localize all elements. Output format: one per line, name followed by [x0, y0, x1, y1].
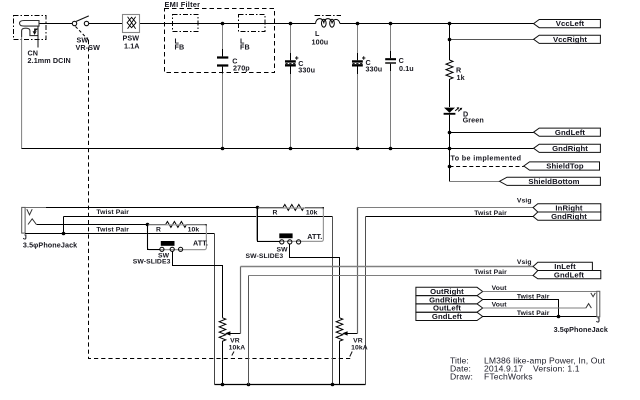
svg-text:Twist Pair: Twist Pair	[96, 209, 129, 216]
svg-text:Version: 1.1: Version: 1.1	[533, 364, 580, 374]
svg-text:GndRight: GndRight	[552, 144, 588, 153]
svg-text:GndRight: GndRight	[551, 212, 587, 221]
svg-text:330u: 330u	[298, 66, 315, 75]
svg-text:10k: 10k	[306, 210, 318, 217]
svg-text:0.1u: 0.1u	[399, 64, 414, 73]
svg-text:330u: 330u	[366, 65, 383, 74]
svg-text:GndLeft: GndLeft	[432, 312, 463, 321]
svg-text:Green: Green	[463, 115, 484, 124]
svg-text:3.5φPhoneJack: 3.5φPhoneJack	[23, 241, 77, 250]
svg-text:VR: VR	[353, 338, 363, 345]
svg-text:1k: 1k	[457, 73, 465, 82]
svg-text:Vout: Vout	[492, 302, 508, 309]
svg-text:J: J	[596, 316, 600, 325]
svg-text:ShieldTop: ShieldTop	[546, 162, 584, 171]
svg-text:SW-SLIDE3: SW-SLIDE3	[246, 253, 284, 260]
svg-text:1.1A: 1.1A	[124, 42, 140, 51]
svg-text:VR: VR	[230, 338, 240, 345]
svg-text:R: R	[273, 210, 278, 217]
svg-text:Twist Pair: Twist Pair	[474, 269, 507, 276]
svg-text:GndLeft: GndLeft	[555, 128, 586, 137]
svg-text:Twist Pair: Twist Pair	[474, 210, 507, 217]
svg-text:VccLeft: VccLeft	[556, 19, 585, 28]
svg-text:Twist Pair: Twist Pair	[517, 310, 550, 317]
svg-text:270p: 270p	[233, 63, 250, 72]
svg-text:ATT.: ATT.	[307, 232, 322, 241]
svg-text:FB: FB	[175, 43, 185, 52]
svg-text:EMI Filter: EMI Filter	[165, 0, 201, 9]
svg-text:10k: 10k	[188, 227, 200, 234]
svg-text:Vsig: Vsig	[517, 259, 532, 266]
svg-text:ATT.: ATT.	[193, 239, 208, 248]
svg-text:SW-SLIDE3: SW-SLIDE3	[133, 259, 171, 266]
svg-text:VccRight: VccRight	[553, 35, 587, 44]
svg-text:FB: FB	[240, 43, 250, 52]
svg-text:ShieldBottom: ShieldBottom	[528, 177, 579, 186]
svg-text:FTechWorks: FTechWorks	[484, 372, 533, 382]
svg-text:2.1mm DCIN: 2.1mm DCIN	[28, 56, 71, 65]
svg-text:3.5φPhoneJack: 3.5φPhoneJack	[554, 325, 608, 334]
svg-text:10kA: 10kA	[351, 345, 368, 352]
svg-text:Twist Pair: Twist Pair	[96, 226, 129, 233]
svg-text:GndLeft: GndLeft	[554, 270, 585, 279]
svg-text:Vsig: Vsig	[517, 198, 532, 205]
svg-text:To be implemented: To be implemented	[451, 154, 522, 163]
svg-text:Vout: Vout	[492, 285, 508, 292]
svg-text:10kA: 10kA	[229, 345, 246, 352]
svg-text:R: R	[156, 227, 161, 234]
svg-text:VR-SW: VR-SW	[76, 43, 101, 52]
svg-text:100u: 100u	[312, 38, 329, 47]
svg-text:Draw:: Draw:	[450, 372, 473, 382]
